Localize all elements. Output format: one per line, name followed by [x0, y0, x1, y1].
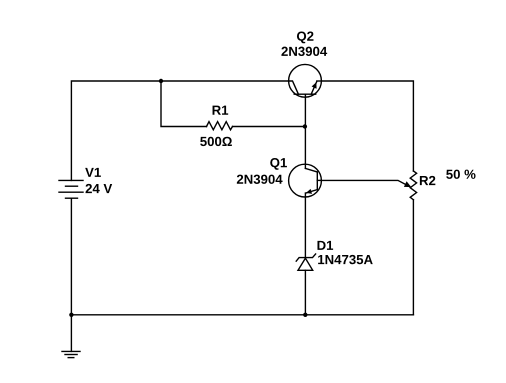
wire D1 to bottom rail [304, 270, 306, 315]
label V1 value 24 V [86, 184, 113, 193]
label R1 [213, 106, 229, 115]
node junction top [159, 79, 163, 83]
node junction D1/bottom rail [303, 313, 307, 317]
label Q2 value 2N3904 [281, 47, 327, 56]
transistor Q1 [289, 164, 322, 197]
wire Q2 emitter to right rail [321, 81, 413, 171]
wire R1 tap down [161, 81, 207, 127]
label Q1 [270, 158, 287, 170]
node junction R1/Q2 base [303, 124, 307, 128]
wire top rail [71, 81, 288, 180]
label D1 value 1N4735A [318, 255, 373, 264]
transistor Q2 [289, 64, 322, 97]
wire left rail lower [70, 198, 72, 315]
ground [62, 315, 80, 358]
battery V1 [59, 180, 83, 198]
wire Q1 emitter to D1 [304, 193, 306, 258]
label R2 value 50 % [446, 170, 475, 179]
label D1 [317, 241, 333, 250]
resistor R1 [207, 122, 233, 130]
diode D1 zener [296, 254, 315, 270]
label Q1 value 2N3904 [237, 175, 283, 184]
node junction ground [69, 313, 73, 317]
wire bottom rail [71, 314, 413, 316]
wire R2 bottom to bottom rail [412, 200, 414, 315]
label R2 [420, 176, 435, 185]
node R2 wiper arrow [404, 181, 411, 187]
label Q2 [297, 31, 314, 43]
label R1 value 500ohm [200, 137, 232, 146]
wire Q1 base to R2 wiper [321, 180, 409, 186]
wire Q2 base to Q1 collector [304, 94, 306, 168]
wire R1 right [233, 126, 306, 128]
label V1 [85, 168, 101, 177]
potentiometer R2 [410, 171, 416, 200]
